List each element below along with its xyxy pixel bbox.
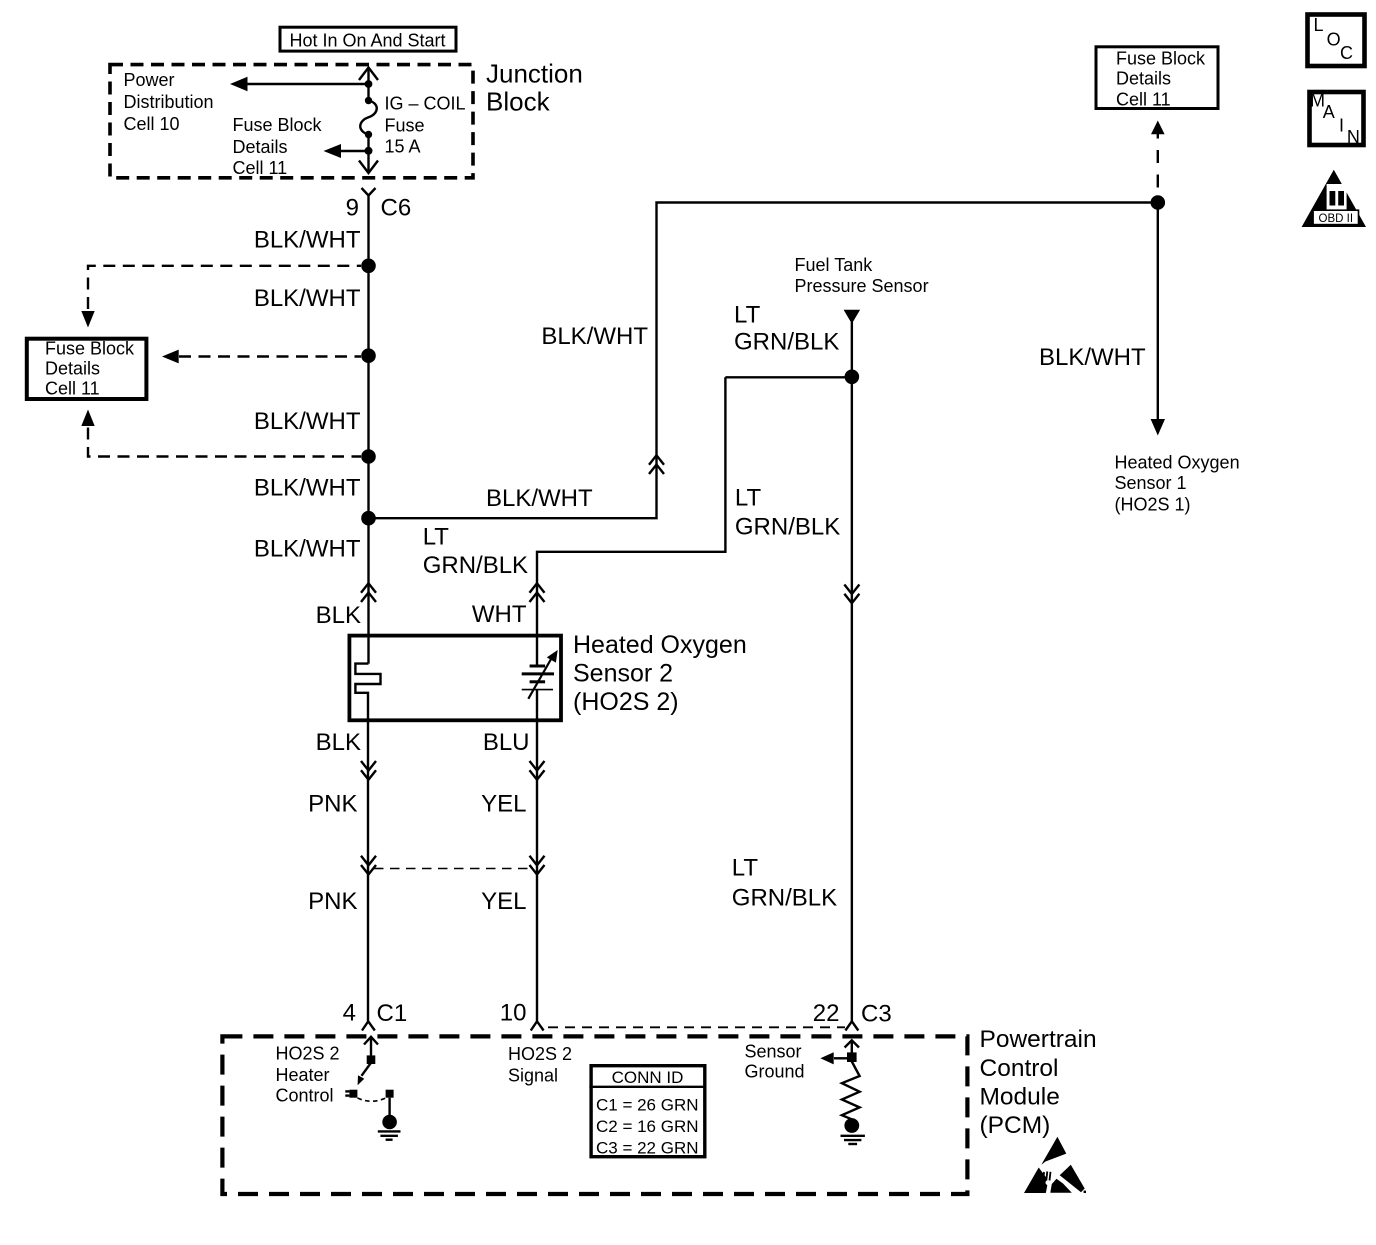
svg-text:PNK: PNK xyxy=(308,791,357,818)
svg-text:Hot In On And Start: Hot In On And Start xyxy=(289,31,445,51)
svg-text:Fuse Block: Fuse Block xyxy=(233,115,323,135)
svg-text:BLK/WHT: BLK/WHT xyxy=(254,408,361,435)
svg-text:Module: Module xyxy=(980,1084,1060,1111)
svg-text:I: I xyxy=(1339,115,1344,135)
svg-text:Sensor 1: Sensor 1 xyxy=(1115,473,1187,493)
svg-text:A: A xyxy=(1323,102,1335,122)
svg-text:(PCM): (PCM) xyxy=(980,1112,1051,1139)
svg-text:BLK/WHT: BLK/WHT xyxy=(254,227,361,254)
svg-text:C3: C3 xyxy=(861,1001,892,1028)
svg-text:BLK/WHT: BLK/WHT xyxy=(541,323,648,350)
svg-text:9: 9 xyxy=(346,195,359,222)
svg-text:10: 10 xyxy=(500,1000,527,1027)
svg-text:(HO2S 2): (HO2S 2) xyxy=(573,688,679,716)
svg-text:YEL: YEL xyxy=(481,888,526,915)
svg-text:Distribution: Distribution xyxy=(124,92,214,112)
svg-text:LT: LT xyxy=(734,302,761,329)
svg-text:HO2S 2: HO2S 2 xyxy=(276,1044,340,1064)
svg-text:BLU: BLU xyxy=(483,729,530,756)
svg-text:22: 22 xyxy=(813,1000,840,1027)
svg-text:BLK/WHT: BLK/WHT xyxy=(254,536,361,563)
svg-text:IG – COIL: IG – COIL xyxy=(385,94,466,114)
svg-text:Details: Details xyxy=(1116,69,1171,89)
svg-text:C1: C1 xyxy=(377,1000,408,1027)
svg-text:Details: Details xyxy=(233,137,288,157)
svg-text:WHT: WHT xyxy=(472,601,527,628)
svg-text:C1 = 26 GRN: C1 = 26 GRN xyxy=(596,1096,699,1115)
svg-text:Ground: Ground xyxy=(745,1062,805,1082)
svg-text:Signal: Signal xyxy=(508,1066,558,1086)
svg-text:LT: LT xyxy=(423,524,450,551)
svg-text:Fuel Tank: Fuel Tank xyxy=(795,255,874,275)
svg-text:BLK: BLK xyxy=(316,729,361,756)
svg-text:C: C xyxy=(1340,43,1353,63)
svg-text:Heater: Heater xyxy=(276,1065,330,1085)
svg-text:Fuse Block: Fuse Block xyxy=(45,339,135,359)
svg-text:N: N xyxy=(1347,127,1360,147)
svg-text:GRN/BLK: GRN/BLK xyxy=(423,552,528,579)
svg-text:BLK: BLK xyxy=(316,602,361,629)
svg-text:Cell 11: Cell 11 xyxy=(45,379,100,399)
svg-text:Control: Control xyxy=(276,1086,334,1106)
svg-text:PNK: PNK xyxy=(308,888,357,915)
svg-text:Pressure Sensor: Pressure Sensor xyxy=(795,276,929,296)
svg-text:4: 4 xyxy=(343,1000,356,1027)
svg-text:CONN ID: CONN ID xyxy=(612,1068,684,1087)
svg-text:Power: Power xyxy=(124,70,175,90)
svg-text:Heated Oxygen: Heated Oxygen xyxy=(573,631,747,659)
svg-text:GRN/BLK: GRN/BLK xyxy=(735,514,840,541)
svg-text:Fuse Block: Fuse Block xyxy=(1116,49,1206,69)
svg-text:Details: Details xyxy=(45,359,100,379)
svg-text:HO2S 2: HO2S 2 xyxy=(508,1044,572,1064)
svg-text:Sensor: Sensor xyxy=(745,1041,802,1061)
svg-text:Cell 11: Cell 11 xyxy=(1116,90,1171,110)
svg-text:LT: LT xyxy=(732,855,759,882)
svg-text:Control: Control xyxy=(980,1055,1059,1082)
svg-text:Sensor 2: Sensor 2 xyxy=(573,660,673,688)
svg-text:C3 = 22 GRN: C3 = 22 GRN xyxy=(596,1139,699,1158)
svg-text:(HO2S 1): (HO2S 1) xyxy=(1115,495,1191,515)
svg-text:C2 = 16 GRN: C2 = 16 GRN xyxy=(596,1117,699,1136)
svg-text:Cell 11: Cell 11 xyxy=(233,158,288,178)
svg-text:BLK/WHT: BLK/WHT xyxy=(1039,344,1146,371)
svg-text:GRN/BLK: GRN/BLK xyxy=(734,329,839,356)
svg-text:15 A: 15 A xyxy=(385,137,421,157)
svg-text:C6: C6 xyxy=(381,195,412,222)
svg-text:GRN/BLK: GRN/BLK xyxy=(732,885,837,912)
svg-text:OBD II: OBD II xyxy=(1319,213,1354,225)
svg-text:Fuse: Fuse xyxy=(385,116,425,136)
svg-text:Heated Oxygen: Heated Oxygen xyxy=(1115,452,1240,472)
svg-text:L: L xyxy=(1314,15,1324,35)
svg-text:LT: LT xyxy=(735,485,762,512)
svg-text:Cell 10: Cell 10 xyxy=(124,114,180,134)
svg-text:BLK/WHT: BLK/WHT xyxy=(486,485,593,512)
svg-text:YEL: YEL xyxy=(481,791,526,818)
svg-text:Junction: Junction xyxy=(486,59,583,89)
svg-text:BLK/WHT: BLK/WHT xyxy=(254,285,361,312)
svg-text:Powertrain: Powertrain xyxy=(980,1026,1097,1053)
svg-text:BLK/WHT: BLK/WHT xyxy=(254,475,361,502)
svg-text:Block: Block xyxy=(486,87,551,117)
svg-text:O: O xyxy=(1327,30,1341,50)
